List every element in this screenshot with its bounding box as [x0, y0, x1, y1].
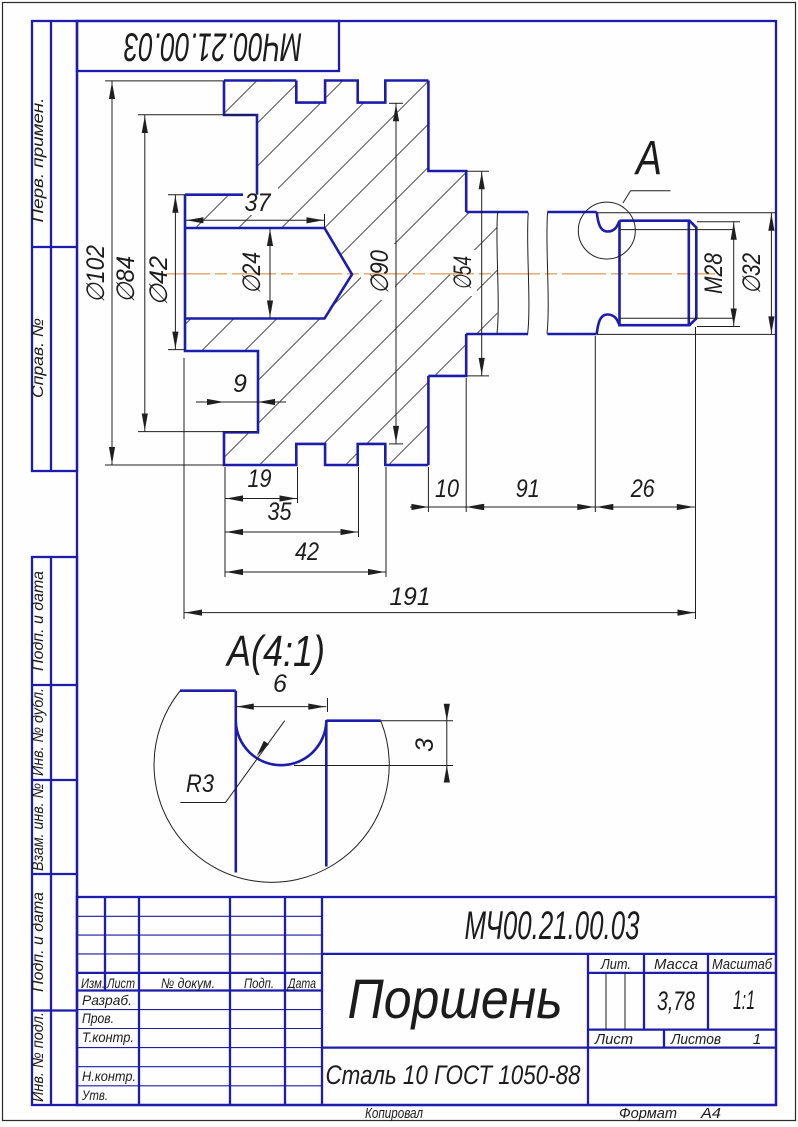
svg-text:Взам. инв. №: Взам. инв. №: [30, 783, 47, 871]
dim 37: [185, 189, 324, 228]
dim φ42: [145, 195, 185, 350]
svg-text:42: 42: [295, 538, 319, 566]
svg-text:Формат: Формат: [619, 1105, 677, 1122]
svg-text:M28: M28: [700, 253, 728, 294]
bore with conical end: [185, 228, 352, 319]
svg-text:А(4:1): А(4:1): [225, 627, 325, 676]
svg-text:6: 6: [273, 670, 287, 698]
header labels: [81, 975, 316, 991]
stamp box МЧ00.21.00.03 rotated 180: [77, 21, 339, 71]
row labels: [81, 992, 136, 1103]
svg-text:91: 91: [516, 475, 540, 503]
svg-text:Масса: Масса: [654, 956, 698, 973]
svg-text:А: А: [634, 132, 662, 185]
svg-text:Подп.: Подп.: [244, 975, 274, 991]
svg-text:R3: R3: [186, 770, 214, 798]
thread minor diameter lines: [620, 230, 733, 319]
svg-text:№ докум.: № докум.: [161, 975, 215, 991]
label halos: [234, 246, 265, 300]
svg-text:Копировал: Копировал: [365, 1105, 423, 1122]
svg-text:1: 1: [753, 1031, 761, 1048]
svg-text:Сталь 10 ГОСТ 1050-88: Сталь 10 ГОСТ 1050-88: [326, 1060, 581, 1090]
svg-text:Т.контр.: Т.контр.: [82, 1029, 134, 1045]
detail boundary circle: [154, 691, 389, 882]
dim R3 leader: [180, 721, 284, 803]
svg-text:35: 35: [268, 498, 292, 526]
dim 91: [466, 475, 595, 510]
svg-text:Пров.: Пров.: [82, 1010, 114, 1026]
svg-text:Н.контр.: Н.контр.: [82, 1068, 136, 1084]
svg-text:Перв. примен.: Перв. примен.: [30, 98, 47, 223]
svg-text:10: 10: [435, 475, 459, 503]
extension lines bottom dims: [184, 327, 696, 619]
svg-text:Поршень: Поршень: [348, 967, 563, 1030]
svg-text:Инв. № подл.: Инв. № подл.: [30, 1012, 47, 1102]
svg-text:А4: А4: [700, 1105, 721, 1122]
svg-text:∅90: ∅90: [366, 250, 394, 294]
dim φ24: [238, 228, 273, 319]
svg-text:∅54: ∅54: [449, 256, 477, 290]
break wavy lines: [497, 213, 548, 334]
svg-text:Дата: Дата: [286, 975, 316, 991]
svg-text:МЧ00.21.00.03: МЧ00.21.00.03: [124, 25, 302, 69]
detail groove arc R3: [236, 722, 326, 765]
svg-text:Масштаб: Масштаб: [712, 956, 772, 973]
title block left grid: [77, 897, 322, 1105]
piston body outline: [185, 81, 466, 466]
svg-text:∅102: ∅102: [82, 245, 110, 303]
dim 6: [236, 670, 328, 712]
dim 9: [196, 370, 286, 405]
dim φ84: [112, 115, 256, 432]
svg-text:Подп. и дата: Подп. и дата: [30, 571, 47, 671]
svg-text:Лит.: Лит.: [600, 956, 631, 973]
dim 42: [225, 538, 386, 575]
title block outer: [77, 897, 776, 1105]
dim 3: [294, 704, 453, 783]
svg-text:∅32: ∅32: [738, 253, 766, 294]
thread relief grooves: [597, 212, 620, 232]
svg-text:Изм.: Изм.: [81, 975, 105, 991]
svg-text:1:1: 1:1: [733, 985, 755, 1015]
centerline axis: [166, 273, 715, 275]
dim φ54: [449, 171, 489, 376]
dim 35: [225, 498, 359, 535]
dim 26: [595, 475, 695, 510]
dim 10: [410, 475, 484, 510]
shaft edges with break: [466, 212, 597, 334]
svg-text:Справ. №: Справ. №: [30, 318, 47, 398]
dim 191: [184, 583, 696, 616]
title block right grid: [606, 954, 708, 1048]
detail part profile: [180, 691, 381, 873]
svg-text:3,78: 3,78: [657, 986, 695, 1016]
dim M28: [697, 222, 740, 327]
footer labels: [365, 1105, 721, 1122]
svg-text:Листов: Листов: [670, 1031, 721, 1048]
threaded end M28: [620, 221, 697, 326]
svg-text:19: 19: [248, 465, 272, 493]
svg-text:191: 191: [390, 583, 431, 611]
svg-text:МЧ00.21.00.03: МЧ00.21.00.03: [465, 904, 640, 948]
detail circle A: [578, 202, 635, 259]
dim φ102: [82, 81, 225, 465]
sidebar column boxes: [32, 21, 77, 1105]
svg-text:37: 37: [245, 189, 272, 217]
dim 19: [225, 465, 298, 502]
svg-text:Разраб.: Разраб.: [82, 992, 132, 1008]
svg-text:Лист: Лист: [106, 975, 135, 991]
dim φ90: [366, 103, 403, 444]
svg-text:3: 3: [411, 738, 439, 752]
right cells labels: [594, 956, 772, 1048]
svg-text:26: 26: [630, 475, 655, 503]
leader to A: [623, 191, 671, 203]
svg-text:9: 9: [233, 370, 247, 398]
svg-text:Подп. и дата: Подп. и дата: [30, 892, 47, 992]
svg-text:Утв.: Утв.: [81, 1087, 108, 1103]
dim φ32: [597, 213, 776, 335]
svg-text:Инв. № дубл.: Инв. № дубл.: [30, 688, 47, 776]
svg-text:Лист: Лист: [594, 1031, 633, 1048]
svg-text:∅42: ∅42: [145, 256, 173, 306]
svg-text:∅24: ∅24: [238, 252, 266, 294]
svg-text:∅84: ∅84: [112, 256, 140, 303]
